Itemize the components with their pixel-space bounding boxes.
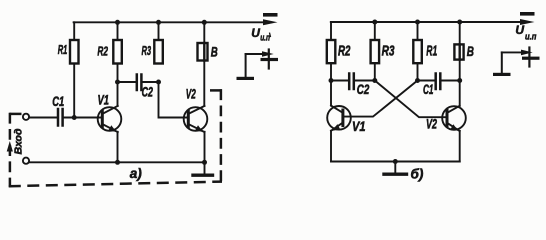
svg-text:R1: R1 xyxy=(58,42,68,57)
wire V2 emitter down (right) xyxy=(459,131,461,162)
wire C1 to V2 collector node (right) xyxy=(442,80,460,82)
wire C2 to R3 node xyxy=(143,81,159,83)
svg-text:R3: R3 xyxy=(382,43,395,59)
wire V1 collector up xyxy=(117,82,119,106)
filter capacitor lead (right power) xyxy=(528,48,530,67)
label R1 xyxy=(58,42,68,57)
capacitor C1 xyxy=(58,109,63,126)
svg-text:V2: V2 xyxy=(426,117,437,132)
wire R1 bottom (right) xyxy=(417,63,419,80)
supply arrow (right) xyxy=(520,19,535,25)
wire V2 emitter down xyxy=(204,132,206,163)
emitter arrow V1 xyxy=(108,125,116,132)
cross wire R1 node to V1 base xyxy=(344,81,418,117)
junction ground (right) xyxy=(393,159,398,164)
wire input to C1 xyxy=(29,117,57,119)
junction V2 collector node (right) xyxy=(457,78,462,83)
wire top supply rail (right) xyxy=(331,21,523,23)
label C2 xyxy=(142,84,154,99)
svg-text:R2: R2 xyxy=(338,43,351,59)
wire bottom rail (right circuit) xyxy=(331,161,460,163)
supply arrow xyxy=(263,19,278,25)
label C1 xyxy=(52,94,64,109)
wire R2 top (right) xyxy=(330,22,332,40)
label V2 (right) xyxy=(426,117,437,132)
filter capacitor lead (left power) xyxy=(268,50,270,69)
label R1 (right) xyxy=(426,43,437,59)
resistor R2 xyxy=(113,40,122,64)
capacitor C1 (right) xyxy=(436,74,441,90)
input terminal upper xyxy=(23,114,29,120)
label a) xyxy=(130,166,143,181)
power bracket vertical (right) xyxy=(501,52,503,73)
dashed path arrow xyxy=(7,141,13,152)
svg-text:а): а) xyxy=(130,166,143,181)
resistor R2 (right) xyxy=(327,40,336,63)
wire node to C2 (right) xyxy=(331,80,348,82)
junction rail R3 (right) xyxy=(372,20,377,25)
label V2 (left) xyxy=(186,86,196,101)
svg-text:U: U xyxy=(251,26,260,40)
junction ground node xyxy=(202,160,207,165)
svg-text:В: В xyxy=(467,44,474,60)
svg-text:Вход: Вход xyxy=(13,128,25,154)
svg-text:V1: V1 xyxy=(352,119,366,134)
wire R1 top (right) xyxy=(417,22,419,40)
svg-text:R1: R1 xyxy=(426,43,437,59)
device B (winding) xyxy=(198,43,208,61)
junction rail R3 xyxy=(156,20,161,25)
wire B element vertical (right) xyxy=(459,22,461,106)
capacitor C2 xyxy=(137,75,142,91)
svg-text:C2: C2 xyxy=(357,82,370,97)
junction rail B xyxy=(202,20,207,25)
transistor V2 (right) xyxy=(442,106,466,131)
svg-text:В: В xyxy=(211,44,218,60)
wire R3 top (right) xyxy=(374,22,376,40)
supply polarity bar (right) xyxy=(520,12,535,16)
wire R3 top xyxy=(158,22,160,40)
wire R2 bottom to collector node xyxy=(117,64,119,83)
wire R1 bottom to base node xyxy=(73,64,75,118)
junction base node V1 xyxy=(72,115,77,120)
power bracket vertical (left) xyxy=(245,54,247,77)
emitter arrow V2 xyxy=(195,125,203,132)
svg-text:R2: R2 xyxy=(97,43,108,58)
label V1 (right) xyxy=(352,119,366,134)
svg-text:C1: C1 xyxy=(52,94,64,109)
wire top supply rail xyxy=(74,21,266,23)
resistor R3 (right) xyxy=(371,40,380,63)
svg-text:C1: C1 xyxy=(423,82,434,97)
wire R2 top xyxy=(117,22,119,40)
ground bar (right power) xyxy=(493,73,511,76)
svg-text:C2: C2 xyxy=(142,84,154,99)
label B (right) xyxy=(467,44,474,60)
svg-text:R3: R3 xyxy=(142,43,152,58)
power bracket wire (right) xyxy=(502,51,524,53)
power bracket arrow (right) xyxy=(521,50,533,56)
input terminal lower xyxy=(23,158,29,164)
resistor R1 (right) xyxy=(413,40,422,63)
device B (right) xyxy=(454,44,463,59)
label b) xyxy=(411,167,424,182)
supply polarity bar xyxy=(263,13,278,17)
label C2 (right) xyxy=(357,82,370,97)
label U i.p (left) xyxy=(251,26,270,43)
label C1 (right) xyxy=(423,82,434,97)
wire R3 bottom (right) xyxy=(374,63,376,80)
label R3 (right) xyxy=(382,43,395,59)
dashed feedback path xyxy=(9,89,222,187)
label U i.p prime tick (left) xyxy=(269,33,272,36)
junction rail R2 xyxy=(115,20,120,25)
ground bar (left power) xyxy=(237,77,255,80)
wire collector node to C2 xyxy=(118,81,136,83)
transistor V2 xyxy=(184,106,208,132)
svg-text:V2: V2 xyxy=(186,86,196,101)
junction rail R1 (right) xyxy=(415,20,420,25)
junction R3 node xyxy=(156,80,161,85)
resistor R3 xyxy=(154,40,163,64)
label U i.p (right) xyxy=(515,23,536,42)
wire V1 collector up (right) xyxy=(330,81,332,106)
label Vhod (input) xyxy=(13,128,25,154)
filter capacitor plate (right power) xyxy=(522,57,540,60)
power bracket wire (left) xyxy=(246,53,265,55)
svg-text:и.п: и.п xyxy=(525,32,537,42)
wire R1 node to C1 (right) xyxy=(418,80,435,82)
capacitor C2 (right) xyxy=(349,74,354,90)
svg-text:U: U xyxy=(515,23,524,37)
junction rail B (right) xyxy=(457,20,462,25)
ground (right circuit) xyxy=(384,162,407,175)
ground (left circuit) xyxy=(193,162,213,175)
wire R2 bottom (right) xyxy=(330,63,332,80)
wire V1 emitter down xyxy=(117,132,119,163)
emitter arrow V1 (right) xyxy=(332,124,340,131)
wire bottom rail (left circuit) xyxy=(29,161,204,163)
transistor V1 xyxy=(98,106,122,132)
wire C1 to V1 base xyxy=(64,117,101,119)
emitter arrow V2 (right) xyxy=(450,124,458,131)
wire R3 node down to V2 base xyxy=(159,82,188,118)
label R3 xyxy=(142,43,152,58)
cross wire R3 node to V2 base xyxy=(375,81,446,118)
junction V1 collector node (right) xyxy=(329,78,334,83)
wire R1 top xyxy=(73,22,75,40)
svg-text:б): б) xyxy=(411,167,424,182)
junction collector V1 node xyxy=(115,80,120,85)
svg-text:V1: V1 xyxy=(98,92,110,107)
junction R1 node (right) xyxy=(415,78,420,83)
label V1 (left) xyxy=(98,92,110,107)
wire B element vertical xyxy=(203,22,205,106)
filter capacitor plate (left power) xyxy=(261,58,279,61)
label R2 xyxy=(97,43,108,58)
label R2 (right) xyxy=(338,43,351,59)
resistor R1 xyxy=(70,40,79,64)
junction R3 node (right) xyxy=(372,78,377,83)
wire C2 to R3 node (right) xyxy=(355,80,375,82)
wire V1 emitter down (right) xyxy=(330,131,332,162)
power bracket arrow (left) xyxy=(262,51,274,57)
transistor V1 (right, mirrored) xyxy=(327,106,351,131)
label B (left) xyxy=(211,44,218,60)
svg-text:и.п: и.п xyxy=(260,32,270,42)
junction emitter V1 bottom xyxy=(115,160,120,165)
